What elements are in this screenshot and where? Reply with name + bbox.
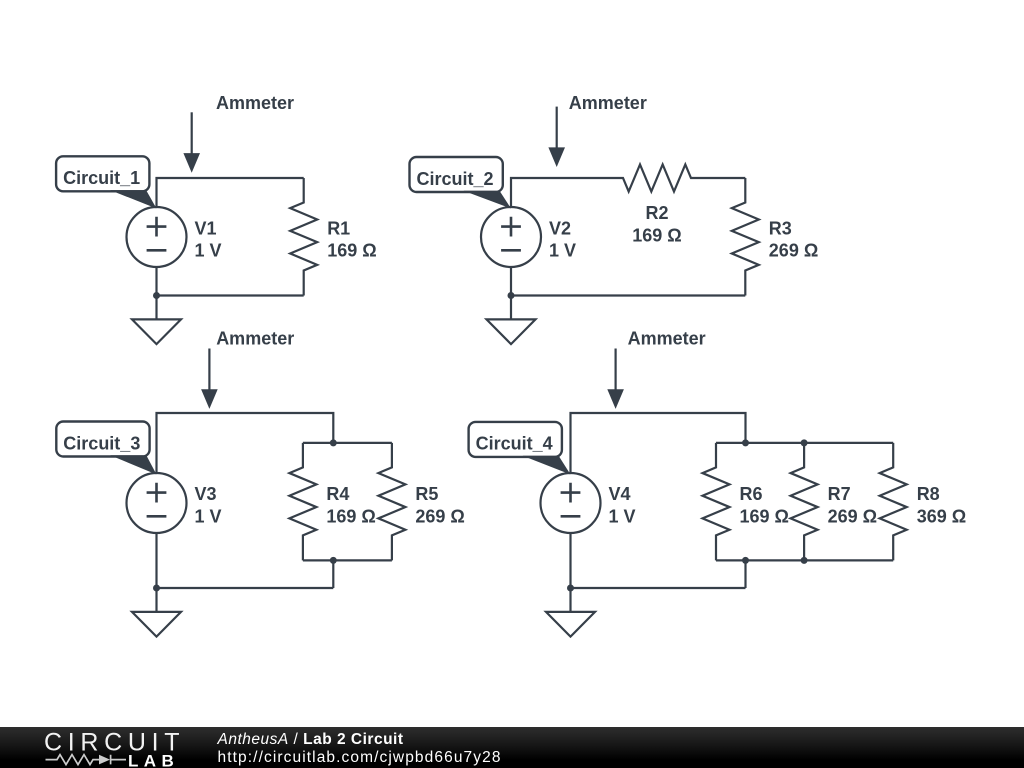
ground symbol (Circuit 4) xyxy=(546,588,595,637)
junction top rail node a (Circuit 4) xyxy=(742,439,749,446)
voltage source V2 xyxy=(481,207,541,267)
svg-text:R5: R5 xyxy=(415,484,438,504)
svg-text:R2: R2 xyxy=(645,203,668,223)
resistor R7 xyxy=(791,443,818,561)
wire: top rail of R4||R5 (Circuit 3) xyxy=(303,442,392,444)
resistor R3 xyxy=(732,178,759,296)
wire: rail down to bottom wire (Circuit 4) xyxy=(744,560,746,588)
wire: rail down to bottom wire (Circuit 3) xyxy=(332,560,334,588)
svg-text:1 V: 1 V xyxy=(195,241,222,261)
svg-text:V4: V4 xyxy=(609,484,631,504)
ammeter probe arrow (Circuit 3) xyxy=(201,349,218,409)
svg-text:R1: R1 xyxy=(327,218,350,238)
CircuitLab logo resistor-diode glyph xyxy=(46,755,127,765)
junction bottom rail node a (Circuit 4) xyxy=(742,557,749,564)
wire: V2 bottom to R3 bottom (Circuit 2) xyxy=(511,267,745,296)
ground symbol (Circuit 2) xyxy=(487,296,536,345)
resistor R6 xyxy=(703,443,730,561)
svg-text:269 Ω: 269 Ω xyxy=(769,241,818,261)
svg-text:Circuit_2: Circuit_2 xyxy=(417,169,494,189)
svg-text:Ammeter: Ammeter xyxy=(628,329,706,349)
svg-text:269 Ω: 269 Ω xyxy=(828,507,877,527)
svg-text:AntheusA / Lab 2 Circuit: AntheusA / Lab 2 Circuit xyxy=(217,731,404,748)
ammeter probe arrow (Circuit 1) xyxy=(183,112,200,172)
junction node at V3- / ground (Circuit 3) xyxy=(153,585,160,592)
wire: bottom rail of R4||R5 (Circuit 3) xyxy=(303,559,392,561)
svg-text:169 Ω: 169 Ω xyxy=(326,507,375,527)
svg-text:1 V: 1 V xyxy=(549,241,576,261)
junction node at V2- / ground (Circuit 2) xyxy=(508,292,515,299)
junction top rail node b (Circuit 4) xyxy=(801,439,808,446)
svg-text:R4: R4 xyxy=(326,484,349,504)
svg-text:169 Ω: 169 Ω xyxy=(740,507,789,527)
svg-text:Ammeter: Ammeter xyxy=(216,93,294,113)
wire: V1 top to R1 top (Circuit 1) xyxy=(157,178,304,207)
ground symbol (Circuit 3) xyxy=(132,588,181,637)
junction node at V4- / ground (Circuit 4) xyxy=(567,585,574,592)
voltage source V4 xyxy=(541,473,601,533)
wire: V4 bottom to parallel network (Circuit 4) xyxy=(571,533,746,588)
wire: top rail of R6||R7||R8 (Circuit 4) xyxy=(716,442,893,444)
junction bottom rail node (Circuit 3) xyxy=(330,557,337,564)
svg-text:R3: R3 xyxy=(769,218,792,238)
svg-text:Ammeter: Ammeter xyxy=(216,329,294,349)
label callout Circuit_2 (Circuit 2) xyxy=(410,157,512,209)
svg-text:169 Ω: 169 Ω xyxy=(327,241,376,261)
ground symbol (Circuit 1) xyxy=(132,296,181,345)
svg-text:269 Ω: 269 Ω xyxy=(415,507,464,527)
svg-text:369 Ω: 369 Ω xyxy=(917,507,966,527)
svg-text:V3: V3 xyxy=(195,484,217,504)
svg-text:LAB: LAB xyxy=(128,751,179,768)
voltage source V3 xyxy=(127,473,187,533)
svg-text:V1: V1 xyxy=(195,218,217,238)
resistor R1 xyxy=(290,178,317,296)
wire: bottom rail of R6||R7||R8 (Circuit 4) xyxy=(716,559,893,561)
svg-text:Circuit_4: Circuit_4 xyxy=(476,434,553,454)
ammeter probe arrow (Circuit 2) xyxy=(548,107,565,167)
junction node at V1- / ground (Circuit 1) xyxy=(153,292,160,299)
svg-text:http://circuitlab.com/cjwpbd66: http://circuitlab.com/cjwpbd66u7y28 xyxy=(218,749,502,766)
wire: V3 bottom to parallel network (Circuit 3) xyxy=(157,533,334,588)
voltage source V1 xyxy=(127,207,187,267)
svg-text:Ammeter: Ammeter xyxy=(569,93,647,113)
junction top rail node (Circuit 3) xyxy=(330,439,337,446)
junction bottom rail node b (Circuit 4) xyxy=(801,557,808,564)
resistor R4 xyxy=(289,443,316,561)
wire: V2 top through R2 to R3 top (Circuit 2) xyxy=(511,165,745,208)
resistor R8 xyxy=(880,443,907,561)
svg-text:R7: R7 xyxy=(828,484,851,504)
svg-text:1 V: 1 V xyxy=(195,507,222,527)
svg-text:Circuit_1: Circuit_1 xyxy=(63,168,140,188)
label callout Circuit_3 (Circuit 3) xyxy=(56,422,156,475)
label callout Circuit_4 (Circuit 4) xyxy=(469,422,571,475)
ammeter probe arrow (Circuit 4) xyxy=(607,349,624,409)
svg-text:1 V: 1 V xyxy=(609,507,636,527)
svg-text:R8: R8 xyxy=(917,484,940,504)
wire: V4 top to parallel rail (Circuit 4) xyxy=(571,413,746,473)
wire: V3 top to parallel rail (Circuit 3) xyxy=(157,413,334,473)
svg-text:169 Ω: 169 Ω xyxy=(632,226,681,246)
wire: V1 bottom to R1 bottom (Circuit 1) xyxy=(157,267,304,296)
resistor R5 xyxy=(378,443,405,561)
svg-text:R6: R6 xyxy=(740,484,763,504)
svg-text:V2: V2 xyxy=(549,218,571,238)
svg-text:Circuit_3: Circuit_3 xyxy=(63,433,140,453)
label callout Circuit_1 (Circuit 1) xyxy=(56,156,156,208)
